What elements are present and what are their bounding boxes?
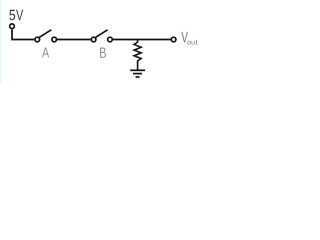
label A bbox=[42, 47, 49, 57]
switch B left contact bbox=[91, 37, 96, 42]
wire from switch B through junction node to output terminal bbox=[113, 39, 171, 41]
label B bbox=[100, 48, 106, 58]
node 5V supply label bbox=[9, 10, 15, 20]
switch B right contact bbox=[108, 37, 113, 42]
label Vout bbox=[181, 32, 187, 43]
switch A right contact bbox=[52, 37, 57, 42]
switch A left contact bbox=[35, 37, 40, 42]
ground bbox=[130, 70, 145, 77]
wire between switch A and switch B bbox=[57, 39, 91, 41]
switch A (SPST, open) bbox=[35, 30, 57, 42]
left panel edge bbox=[0, 0, 1, 84]
terminal 5V bbox=[10, 24, 15, 29]
switch B (SPST, open) bbox=[91, 30, 112, 42]
terminal Vout (output node) bbox=[171, 37, 176, 42]
resistor R1 (pull-down, with leads from junction node down to ground) bbox=[134, 40, 141, 70]
switch B lever bbox=[96, 30, 108, 38]
wire from 5V terminal to switch A bbox=[12, 29, 34, 39]
switch A lever bbox=[39, 30, 51, 38]
